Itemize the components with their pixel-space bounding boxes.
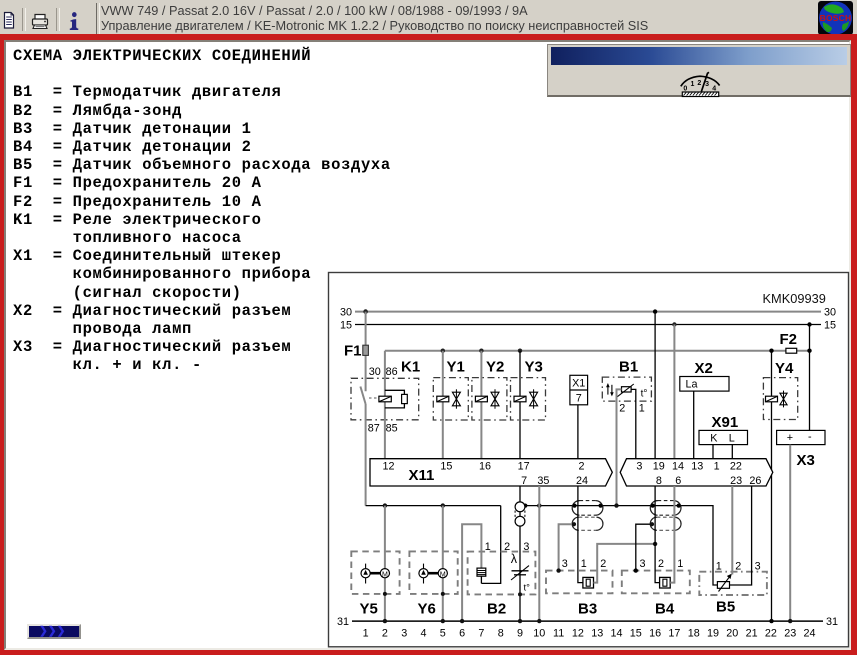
cable shield B3	[572, 501, 603, 531]
solenoid valve Y3 valve symbol	[530, 389, 538, 408]
bottom terminal numbers 1-24	[363, 627, 816, 639]
solenoid valve Y1 coil	[437, 396, 449, 402]
svg-text:La: La	[686, 379, 698, 391]
junction B4 pin 3 terminal	[634, 568, 638, 572]
B4 pin labels 3 2 1	[640, 558, 684, 570]
wire feed line through Y3 coil to X11	[519, 351, 521, 459]
sensor B1 arrows	[606, 383, 614, 396]
svg-text:87: 87	[368, 423, 380, 435]
svg-text:2: 2	[619, 403, 625, 415]
svg-text:K1: K1	[401, 359, 420, 376]
junction sensor common	[653, 542, 657, 546]
wire shield bus right section	[525, 506, 717, 585]
junction on 15 rail to X11 pin 14	[672, 322, 676, 326]
svg-text:15: 15	[440, 461, 452, 473]
svg-text:35: 35	[537, 475, 549, 487]
svg-text:14: 14	[672, 461, 684, 473]
solenoid valve Y2 valve symbol	[491, 389, 499, 408]
junction Y3 on feed line	[518, 349, 522, 353]
wire B2 heater bottom to pin 2	[480, 576, 482, 583]
svg-text:Y6: Y6	[418, 601, 436, 618]
svg-text:13: 13	[591, 627, 603, 639]
printer icon	[33, 15, 48, 29]
fuel pump Y5 pump symbol	[361, 564, 370, 584]
svg-text:19: 19	[653, 461, 665, 473]
svg-text:85: 85	[386, 423, 398, 435]
solenoid valve Y4 coil	[766, 396, 778, 402]
svg-text:30: 30	[369, 366, 381, 378]
schematic frame	[329, 273, 849, 647]
junction 31 rail pin 10	[537, 619, 541, 623]
solenoid valve Y4 valve symbol	[780, 391, 787, 408]
solenoid valve Y3 box	[511, 378, 546, 420]
junction shield B4 right on bus	[677, 504, 681, 508]
svg-text:t°: t°	[641, 389, 648, 400]
wire X3 minus to 15 rail	[809, 325, 811, 431]
fuel pump Y5 box	[351, 551, 399, 594]
wire bus through Y6 motor to 31 rail	[442, 506, 444, 621]
junction 31 rail pin 9	[518, 619, 522, 623]
wire X1 to X11 pin 2	[577, 405, 579, 459]
sensor B1 pin labels	[619, 403, 645, 415]
junction on 15 rail to F2 line	[807, 322, 811, 326]
wire bus through Y5 motor to 31 rail	[384, 506, 386, 621]
svg-text:K: K	[710, 432, 718, 444]
svg-text:24: 24	[803, 627, 815, 639]
svg-text:8: 8	[656, 475, 662, 487]
svg-text:7: 7	[478, 627, 484, 639]
svg-text:11: 11	[553, 627, 564, 639]
svg-text:KMK09939: KMK09939	[763, 291, 826, 306]
svg-text:F1: F1	[344, 343, 362, 360]
svg-text:31: 31	[337, 616, 349, 628]
svg-text:2: 2	[382, 627, 388, 639]
wire K1 pin 86 to coil to pin 85 / X11 pin 12	[384, 351, 386, 459]
svg-text:7: 7	[521, 475, 527, 487]
relay K1 parallel resistor	[402, 394, 408, 403]
wire X2 to X11 pin 13	[693, 391, 695, 459]
junction B3 pin 3 terminal	[556, 568, 560, 572]
relay K1 coil	[379, 396, 391, 402]
svg-text:B1: B1	[619, 359, 638, 376]
svg-text:2: 2	[504, 541, 510, 553]
svg-text:3: 3	[401, 627, 407, 639]
junction bus Y5	[383, 503, 387, 507]
knock sensor B3 box	[546, 571, 613, 594]
ECU connector X11 left bar	[370, 459, 612, 486]
svg-text:X11: X11	[409, 467, 435, 484]
bosch globe logo	[818, 1, 853, 35]
svg-text:10: 10	[533, 627, 545, 639]
svg-text:23: 23	[730, 475, 742, 487]
svg-text:t°: t°	[524, 583, 531, 594]
wire feed line through Y4 to 31 rail pin 22	[771, 351, 773, 621]
svg-text:31: 31	[826, 616, 838, 628]
connector X91 box	[699, 430, 748, 444]
connector X3 box	[777, 430, 825, 444]
solenoid valve Y2 coil	[475, 396, 487, 402]
svg-text:λ: λ	[511, 552, 518, 566]
relay K1 pin labels 30 86 87 85	[368, 366, 398, 435]
twisted pair symbol	[515, 502, 525, 526]
B5 pin labels 1 2 3	[716, 560, 761, 572]
junction bus X11 pin 35 wire	[537, 503, 541, 507]
svg-text:23: 23	[784, 627, 796, 639]
svg-text:2: 2	[578, 461, 584, 473]
fuse F2	[780, 331, 798, 353]
solenoid valve Y1 valve symbol	[452, 389, 460, 408]
fuel pump Y5 link	[370, 572, 380, 575]
svg-text:1: 1	[714, 461, 720, 473]
junction shield B3 right on bus	[599, 504, 603, 508]
solenoid valve Y4 box	[763, 378, 797, 420]
svg-text:14: 14	[610, 627, 622, 639]
svg-text:3: 3	[562, 558, 568, 570]
ECU connector X11 right bar	[620, 459, 773, 486]
svg-text:B5: B5	[716, 599, 735, 616]
svg-text:L: L	[729, 432, 735, 444]
svg-text:6: 6	[459, 627, 465, 639]
relay K1 box	[351, 378, 419, 420]
wire 30 rail to X11 pin 19	[654, 312, 656, 459]
cable shield B4	[650, 501, 681, 531]
wire X11 pin 35 to 31 rail pin 10	[538, 486, 540, 621]
wire X11 pin 8 to B4 pin 2	[655, 486, 660, 583]
junction 31 rail pin 23	[788, 619, 792, 623]
wire X11 pin 24 to B3 pin 1	[578, 486, 583, 583]
connector X2 box	[680, 377, 729, 392]
wire 15 rail to X11 pin 14	[673, 325, 675, 459]
svg-text:12: 12	[382, 461, 394, 473]
X11 right bar top pin labels	[636, 461, 742, 473]
document icon	[5, 13, 14, 29]
solenoid valve Y3 coil	[514, 396, 526, 402]
svg-text:+: +	[787, 432, 793, 444]
svg-text:21: 21	[746, 627, 758, 639]
wire X11 pin 7 through twisted pair to lambda cell to 31 rail pin 9	[519, 486, 521, 621]
svg-text:7: 7	[576, 392, 582, 404]
svg-text:30: 30	[824, 306, 836, 318]
svg-text:Y4: Y4	[775, 360, 794, 377]
svg-text:30: 30	[340, 306, 352, 318]
svg-text:1: 1	[677, 558, 683, 570]
wire feed line through Y1 coil to X11	[442, 351, 444, 459]
relay K1 switch contact	[360, 387, 365, 405]
junction on 30 rail at F1	[363, 309, 368, 314]
junction Y5 31 rail	[383, 619, 387, 623]
fuel pump Y6 box	[409, 551, 457, 594]
X11 left bar bottom pin labels	[521, 475, 588, 487]
wire bus to B2 pin 2 heater return	[481, 506, 500, 584]
svg-text:1: 1	[363, 627, 369, 639]
junction shield B3 left on bus	[572, 504, 576, 508]
svg-text:Y3: Y3	[525, 359, 543, 376]
svg-text:16: 16	[649, 627, 661, 639]
wire X3 plus to 31 rail pin 23	[789, 445, 791, 621]
svg-text:5: 5	[440, 627, 446, 639]
wire B3 pin 2 to sensor common	[594, 544, 656, 583]
junction bus Y6	[441, 503, 445, 507]
wire B1 pin 2 to shield bus	[617, 389, 622, 505]
svg-text:20: 20	[726, 627, 738, 639]
junction B4 shield lower ring	[650, 522, 654, 526]
junction bus B1 pin 2 wire	[614, 503, 618, 507]
fuel pump Y6 pump symbol	[419, 564, 428, 584]
knock sensor B4 element	[660, 577, 671, 588]
wire 30 rail to F1 to K1 pin 30	[365, 312, 367, 392]
B2 heater element	[477, 568, 486, 576]
wire feed line through Y2 coil to X11	[480, 351, 482, 459]
solenoid valve Y2 box	[472, 378, 507, 420]
svg-text:3: 3	[755, 560, 761, 572]
svg-text:2: 2	[658, 558, 664, 570]
info icon	[70, 12, 79, 30]
wire K1 pin 87 down	[365, 404, 367, 506]
sensor B1 NTC resistor	[617, 384, 634, 397]
junction B3 shield lower ring	[572, 522, 576, 526]
fuel pump Y5 motor symbol	[380, 569, 389, 579]
svg-text:Y2: Y2	[486, 359, 504, 376]
junction Y2 on feed line	[479, 349, 483, 353]
relay K1 switch dashed link	[369, 397, 379, 399]
fuel pump Y6 motor symbol	[438, 569, 447, 579]
B2 pin labels 1 2 3	[485, 541, 530, 553]
connector X1 box	[570, 375, 588, 405]
svg-text:1: 1	[581, 558, 587, 570]
svg-text:22: 22	[730, 461, 742, 473]
svg-text:-: -	[808, 431, 812, 443]
B3 pin labels 3 1 2	[562, 558, 606, 570]
knock sensor B3 element	[583, 577, 594, 588]
solenoid valve Y1 box	[433, 378, 468, 420]
wire X91 K to X11 pin 1	[712, 445, 714, 459]
svg-text:1: 1	[639, 403, 645, 415]
fuse F1	[344, 343, 368, 360]
svg-text:2: 2	[600, 558, 606, 570]
svg-text:B3: B3	[578, 601, 597, 618]
svg-text:B2: B2	[487, 601, 506, 618]
svg-text:8: 8	[498, 627, 504, 639]
svg-text:Y5: Y5	[360, 601, 378, 618]
svg-text:6: 6	[675, 475, 681, 487]
wire B3 pin 3 to shield	[559, 524, 574, 570]
svg-text:86: 86	[386, 366, 398, 378]
svg-text:19: 19	[707, 627, 719, 639]
node 31 rail	[337, 616, 838, 628]
wire K1 pin 86 feed line to F2	[385, 350, 810, 352]
svg-text:1: 1	[716, 560, 722, 572]
svg-text:26: 26	[749, 475, 761, 487]
svg-text:4: 4	[420, 627, 426, 639]
knock sensor B4 box	[622, 571, 690, 594]
svg-text:16: 16	[479, 461, 491, 473]
junction B2 box bottom	[518, 592, 522, 596]
junction Y5 box bottom	[383, 592, 387, 596]
wire B4 pin 1 to X11 pin 6	[670, 486, 674, 583]
wire shield bus left section	[366, 505, 501, 507]
fuel pump Y6 link	[428, 572, 438, 575]
svg-text:15: 15	[340, 319, 352, 331]
svg-text:3: 3	[523, 541, 529, 553]
wire B2 heater pin 1 to 31 rail pin 6	[462, 524, 481, 621]
node 30 rail	[340, 306, 836, 318]
junction bus twisted pair	[523, 504, 527, 508]
svg-text:22: 22	[765, 627, 777, 639]
wire X91 L to X11 pin 22	[731, 445, 733, 459]
junction Y6 box bottom	[441, 592, 445, 596]
X11 right bar bottom pin labels	[656, 475, 762, 487]
gauge icon	[681, 76, 720, 86]
svg-text:M: M	[440, 571, 446, 578]
svg-text:1: 1	[485, 541, 491, 553]
svg-text:X3: X3	[797, 452, 815, 469]
junction on 30 rail to X11 pin 19	[653, 309, 657, 313]
sensor B1 box	[602, 377, 651, 401]
air flow sensor B5 box	[699, 572, 767, 595]
junction Y6 31 rail	[441, 619, 445, 623]
air flow sensor B5 potentiometer	[717, 574, 731, 592]
svg-text:M: M	[382, 571, 388, 578]
svg-text:B4: B4	[655, 601, 675, 618]
svg-text:F2: F2	[780, 331, 798, 348]
junction 31 rail pin 6	[460, 619, 464, 623]
relay K1 parallel resistor branch	[385, 390, 405, 394]
wire X11 pin 23 to B5 wiper	[731, 486, 733, 575]
svg-text:X91: X91	[712, 414, 739, 431]
junction shield B4 left on bus	[651, 504, 655, 508]
svg-text:X2: X2	[695, 360, 713, 377]
svg-text:12: 12	[572, 627, 584, 639]
svg-text:24: 24	[576, 475, 588, 487]
toolbar	[0, 0, 857, 34]
svg-text:15: 15	[824, 319, 836, 331]
wire X11 pin 26 to B5 pin 3	[730, 486, 752, 585]
svg-text:3: 3	[636, 461, 642, 473]
lambda cell symbol	[511, 552, 530, 594]
svg-text:18: 18	[688, 627, 700, 639]
junction feed line to 15 rail	[807, 349, 811, 353]
svg-text:15: 15	[630, 627, 642, 639]
wire B4 pin 3 to shield	[636, 524, 652, 570]
svg-text:2: 2	[735, 560, 741, 572]
svg-text:17: 17	[668, 627, 680, 639]
wire resistor to K1 pin 85	[385, 404, 405, 408]
junction Y4 on feed line	[769, 349, 773, 353]
svg-text:17: 17	[518, 461, 530, 473]
svg-text:3: 3	[640, 558, 646, 570]
lambda probe B2 box	[468, 552, 536, 595]
svg-text:13: 13	[691, 461, 703, 473]
svg-text:X1: X1	[572, 377, 585, 389]
junction 31 rail pin 22	[769, 619, 773, 623]
junction Y1 on feed line	[441, 349, 445, 353]
node 15 rail	[340, 319, 836, 331]
wire B1 pin 1 to X11 pin 3	[631, 389, 636, 458]
svg-text:9: 9	[517, 627, 523, 639]
svg-text:Y1: Y1	[447, 359, 465, 376]
X11 left bar top pin labels	[382, 461, 584, 473]
